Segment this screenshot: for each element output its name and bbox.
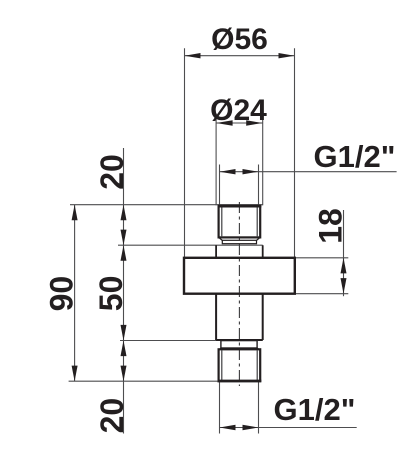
arrow: 20 bottom down: [121, 366, 127, 382]
wire: Ø24 dimension line: [216, 122, 263, 124]
svg-text:50: 50: [93, 276, 129, 312]
arrow: G1/2 top right: [243, 169, 259, 174]
wire: G1/2 top dimension/leader line: [219, 171, 396, 173]
arrow: Ø56 right: [279, 53, 295, 58]
arrow: 20 top up: [121, 205, 127, 221]
top nut collar: [222, 240, 256, 243]
wire: neck-top reference line (20 top / 50 boundary): [118, 244, 263, 246]
top nut top edge (extra thick): [218, 205, 262, 208]
wire: nut-bottom reference line (90 bottom): [69, 380, 219, 382]
centerline of shower arm: [238, 202, 240, 386]
wire: Ø56 dimension line: [184, 55, 295, 57]
wire: 18 dimension line: [343, 210, 345, 296]
lower nut chamfer left: [219, 348, 221, 350]
wire: 90 dimension line: [74, 205, 76, 382]
flange Ø56: [184, 258, 295, 294]
arrow: Ø24 right: [246, 120, 263, 125]
svg-text:G1/2": G1/2": [274, 392, 356, 427]
wire: 20/50/20 dimension line: [123, 148, 125, 434]
arrow: 90 up: [72, 205, 78, 221]
arrow: 50 down: [121, 325, 127, 341]
top nut inner thread line right: [256, 207, 258, 238]
arrow: G1/2 bottom left: [220, 425, 236, 430]
svg-text:Ø24: Ø24: [210, 94, 267, 127]
arrow: G1/2 bottom right: [243, 425, 259, 430]
lower nut bottom edge (extra thick): [218, 380, 262, 383]
lower collar: [221, 341, 257, 348]
arrow: 50 up: [121, 245, 127, 261]
top nut inner thread line left: [221, 207, 223, 238]
svg-text:18: 18: [313, 208, 349, 244]
wire: ceiling reference line: [70, 204, 263, 206]
svg-text:G1/2": G1/2": [314, 139, 396, 174]
arrow: Ø24 left: [216, 120, 233, 125]
wire: Ø24 right extension line: [262, 116, 264, 206]
lower nut inner thread line left: [221, 350, 223, 381]
arrow: 18 down: [341, 278, 347, 294]
wire: G1/2 top right extension line: [258, 165, 260, 206]
lower nut chamfer right: [257, 348, 260, 350]
top nut chamfer right: [257, 237, 261, 240]
wire: G1/2 bottom right extension line: [258, 381, 260, 434]
svg-text:20: 20: [94, 154, 130, 190]
wire: Ø24 left extension line: [215, 116, 217, 206]
wire: flange-top right extension line: [295, 257, 349, 259]
top nut chamfer left: [219, 237, 223, 240]
arrow: 20 bottom up: [121, 341, 127, 357]
svg-text:20: 20: [94, 398, 130, 434]
lower nut inner thread line right: [256, 350, 258, 381]
arrow: G1/2 top left: [220, 169, 236, 174]
lower nut body (G1/2 male thread): [219, 349, 261, 381]
wire: G1/2 top left extension line: [219, 165, 221, 206]
svg-text:Ø56: Ø56: [211, 23, 268, 56]
top nut body (G1/2 male thread): [219, 206, 261, 238]
arrow: 20 top down: [121, 230, 127, 246]
wire: Ø56 right extension line: [294, 48, 296, 257]
arrow: 18 up: [341, 258, 347, 274]
arrow: 90 down: [72, 366, 78, 382]
wire: flange-bottom right extension line: [295, 293, 349, 295]
neck between nut and flange: [216, 245, 263, 258]
stem below flange: [216, 294, 263, 340]
wire: G1/2 bottom left extension line: [219, 381, 221, 434]
wire: G1/2 bottom dimension/leader line: [220, 427, 357, 429]
arrow: Ø56 left: [185, 53, 201, 58]
wire: Ø56 left extension line: [184, 48, 186, 257]
svg-text:90: 90: [44, 276, 80, 312]
wire: stem-bottom reference line (50 / 20 bottom boundary): [120, 340, 263, 342]
